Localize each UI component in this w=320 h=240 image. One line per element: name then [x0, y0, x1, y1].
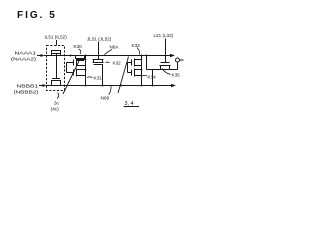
wire K35 source — [152, 70, 154, 86]
junction bottom rail node N60 — [120, 85, 122, 87]
junction B1 drain — [141, 59, 143, 61]
junction bottom rail cluster B — [141, 85, 143, 87]
svg-text:JL51 (JL52): JL51 (JL52) — [87, 37, 112, 42]
transistor A2 — [77, 69, 86, 77]
svg-text:K30: K30 — [74, 44, 83, 49]
junction top rail cluster A — [85, 55, 87, 57]
junction A1 drain — [85, 59, 87, 61]
leader from IL51 to box — [56, 40, 58, 46]
transistor A1 — [77, 59, 86, 67]
terminal circle output — [176, 58, 180, 62]
wire K35 channel rail — [147, 56, 178, 70]
arrow bottom rail output — [171, 84, 176, 87]
junction bottom rail K32 — [102, 85, 104, 87]
svg-text:IL51 (IL52): IL51 (IL52) — [45, 35, 68, 40]
wire cluster A gate tie — [66, 63, 68, 73]
svg-text:K35: K35 — [172, 73, 181, 78]
transistor K30 — [75, 56, 85, 59]
junction bottom rail K35 source — [152, 85, 154, 87]
arrow top rail output — [170, 54, 175, 57]
wire gate tie in box — [56, 54, 58, 79]
svg-text:NAAA1: NAAA1 — [15, 51, 37, 56]
svg-text:(NAAA2): (NAAA2) — [11, 57, 37, 62]
svg-text:N6A: N6A — [110, 45, 120, 50]
svg-text:K32: K32 — [113, 61, 122, 66]
input arrow NAAA1 — [37, 55, 41, 57]
transistor box-bottom — [52, 81, 61, 86]
wire cluster A drain — [85, 56, 87, 86]
svg-text:(4c): (4c) — [51, 107, 60, 113]
junction top rail K35 — [146, 55, 148, 57]
svg-text:K34: K34 — [148, 75, 157, 80]
svg-text:3c: 3c — [54, 101, 60, 106]
junction bottom rail cluster A — [85, 85, 87, 87]
wire bottom rail — [46, 85, 172, 87]
svg-text:K31: K31 — [94, 76, 103, 81]
junction B2 drain — [141, 69, 143, 71]
wire cluster B gate tie — [127, 63, 129, 73]
transistor K35 — [161, 62, 170, 64]
dashed box 3c — [47, 46, 65, 91]
junction top rail cluster B — [141, 55, 143, 57]
svg-text:K33: K33 — [132, 43, 141, 48]
wire top rail — [44, 55, 171, 57]
transistor box-top — [52, 51, 61, 56]
svg-text:N60: N60 — [101, 96, 110, 102]
wire JL51 vertical — [98, 42, 100, 60]
leader diagonal from 3c — [63, 61, 79, 94]
wire cluster B drain — [141, 56, 143, 86]
junction A2 drain — [85, 69, 87, 71]
svg-text:(NBBB2): (NBBB2) — [14, 90, 40, 95]
svg-text:FIG. 5: FIG. 5 — [17, 10, 57, 21]
transistor B2 — [135, 69, 142, 77]
transistor B1 — [135, 59, 142, 67]
svg-text:NBBB1: NBBB1 — [17, 84, 39, 89]
wire L31 vertical — [165, 39, 167, 63]
leader brace to 3c — [57, 93, 59, 99]
junction top rail left — [70, 55, 72, 57]
leader diagonal from 3,4 — [118, 57, 129, 94]
transistor K32 — [93, 60, 104, 63]
input arrow NBBB1 — [39, 85, 43, 87]
svg-text:L31 (L32): L31 (L32) — [154, 33, 174, 38]
